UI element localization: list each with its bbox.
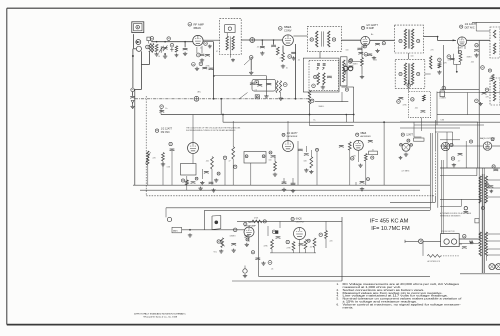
tuning capacitor C2A <box>163 48 168 50</box>
part marker R13 <box>438 58 442 62</box>
part marker <box>371 156 374 159</box>
wire <box>141 63 149 65</box>
resistor R22 <box>310 157 313 168</box>
capacitor C7a <box>205 55 210 57</box>
part marker <box>233 228 237 232</box>
detector tube V4 <box>457 37 466 46</box>
wire <box>258 221 260 276</box>
svg-text:220: 220 <box>330 241 333 243</box>
wire <box>437 92 500 94</box>
wire <box>132 49 134 56</box>
part marker L4 <box>312 84 316 88</box>
antenna coil T1 primary <box>149 43 151 52</box>
wire <box>436 92 438 126</box>
wire <box>201 169 203 179</box>
svg-text:47: 47 <box>229 161 231 163</box>
svg-text:©Howard W. Sams & Co., Inc. 19: ©Howard W. Sams & Co., Inc. 1948 <box>143 315 178 318</box>
wire <box>134 48 137 50</box>
svg-text:10MEG: 10MEG <box>230 236 237 238</box>
ground <box>372 56 376 60</box>
capacitor C27 <box>204 172 209 174</box>
capacitor C35 <box>291 183 296 185</box>
capacitor C31 <box>304 154 309 156</box>
terminal strip TS1 <box>172 227 182 233</box>
capacitor C30 <box>298 149 303 151</box>
wire (T10 tap) <box>487 196 500 198</box>
ground <box>437 70 441 74</box>
capacitor C44 <box>339 146 344 148</box>
part marker <box>492 165 495 168</box>
pilot lamp PL1 <box>489 264 495 270</box>
part marker R2 <box>170 43 174 47</box>
T5 secondary <box>411 29 413 49</box>
T3 core <box>323 31 325 46</box>
wire <box>204 210 206 230</box>
wire <box>309 115 311 126</box>
wire <box>353 115 355 123</box>
resistor R24 <box>252 220 262 223</box>
junction <box>456 71 458 73</box>
wire <box>314 248 316 253</box>
wire <box>440 167 500 169</box>
loopstick L2 box <box>147 37 151 41</box>
volume control R30 <box>221 238 224 248</box>
part marker <box>181 179 184 182</box>
wire <box>220 99 222 115</box>
fuse block <box>475 219 479 223</box>
resistor R19 <box>211 157 214 169</box>
wire <box>477 122 479 168</box>
wire <box>408 53 410 59</box>
wire <box>192 154 194 164</box>
wire <box>224 160 226 186</box>
T2 primary winding <box>226 36 228 50</box>
ground <box>360 75 364 79</box>
wire <box>232 159 234 185</box>
svg-text:CONV: CONV <box>284 28 292 32</box>
wire <box>171 150 173 185</box>
wire <box>203 41 214 43</box>
wire (converter B+) <box>295 44 297 99</box>
ground <box>474 53 478 57</box>
wire <box>270 252 316 254</box>
wire (harness) <box>429 133 431 210</box>
wire <box>422 241 424 256</box>
T6 trimmer <box>417 72 420 75</box>
wire <box>250 59 252 70</box>
part marker <box>348 59 352 63</box>
resistor R6 <box>276 47 279 55</box>
resistor R31 <box>427 255 440 258</box>
part marker C-am <box>349 59 352 62</box>
svg-text:REFERENCE SEGMENTS: REFERENCE SEGMENTS <box>440 216 461 218</box>
part marker <box>251 251 254 254</box>
wire <box>297 141 299 152</box>
ratio det transformer T7 (dashed) <box>490 27 500 58</box>
svg-text:6.: 6. <box>337 303 340 307</box>
wire <box>349 150 351 185</box>
wire <box>355 182 357 185</box>
T8 winding <box>493 81 495 101</box>
wire <box>423 240 441 242</box>
ground <box>219 249 223 253</box>
wire <box>186 176 188 180</box>
ground <box>130 105 134 109</box>
svg-text:47: 47 <box>216 51 218 53</box>
FM tuner enclosure (dashed right) <box>434 150 436 196</box>
wire (RF to converter) <box>241 39 282 41</box>
wire <box>265 76 267 95</box>
AC interlock (dashed) <box>441 255 460 257</box>
wire <box>440 145 483 147</box>
part marker L1 <box>146 45 150 49</box>
wire <box>310 150 312 157</box>
IF transformer T5 (dashed shield) <box>395 25 424 53</box>
wire (T3 to IF amp) <box>341 39 361 41</box>
wire <box>309 104 311 115</box>
wire <box>460 199 462 206</box>
capacitor C7 <box>260 46 265 48</box>
coil L5 <box>430 56 432 69</box>
wire <box>316 152 318 185</box>
wire (IF amp to T5) <box>370 39 395 41</box>
junction <box>156 41 158 43</box>
output tube V8 <box>441 142 449 150</box>
ground <box>200 181 204 185</box>
wire <box>414 124 484 126</box>
part marker <box>367 178 370 181</box>
wire <box>357 150 359 162</box>
FM mixer tube V6 <box>283 141 294 152</box>
border top (decorative frame) <box>7 7 500 9</box>
wire (AVC bus, chain line) <box>135 98 310 100</box>
resistor R12 <box>361 58 364 66</box>
FM coil L6 <box>147 151 149 165</box>
T2 secondary winding <box>232 36 234 50</box>
wire <box>283 178 285 182</box>
wire <box>140 51 142 64</box>
junction <box>189 229 191 231</box>
resistor R8 <box>282 53 285 62</box>
output tube V11 6AQ5 <box>294 228 306 240</box>
wire (AF plate line) <box>237 220 342 222</box>
wire (long vertical, det output) <box>478 40 480 168</box>
wire <box>478 168 480 239</box>
junction <box>346 114 348 116</box>
wire <box>305 249 307 253</box>
wire <box>273 40 275 45</box>
wire <box>353 87 355 115</box>
capacitor C10a <box>250 83 255 85</box>
tie point <box>464 207 467 210</box>
part marker C19 <box>488 69 491 72</box>
RF amp tube V1 6BA6 <box>193 35 203 45</box>
part marker <box>407 139 410 142</box>
wire (detector to ratio det transformer) <box>467 39 490 41</box>
wire <box>214 75 267 77</box>
terminal tick <box>404 240 406 243</box>
FM tuner enclosure (dashed left) <box>145 96 147 196</box>
resistor R15 <box>491 75 494 82</box>
T3 secondary <box>328 31 330 47</box>
part marker C20 <box>160 105 164 109</box>
T2 core <box>229 36 231 49</box>
wire <box>459 238 478 240</box>
svg-text:1/2 12AT7: 1/2 12AT7 <box>287 132 299 135</box>
wire <box>244 266 246 269</box>
wire <box>440 175 477 177</box>
svg-text:6BE6: 6BE6 <box>284 25 292 29</box>
resistor R10 <box>279 81 281 93</box>
wire <box>383 122 385 185</box>
wire <box>299 240 301 253</box>
part marker <box>316 148 319 151</box>
svg-text:1MEG: 1MEG <box>353 64 359 66</box>
wire <box>279 221 281 228</box>
junction <box>309 114 311 116</box>
marker <box>262 155 265 158</box>
svg-text:.05: .05 <box>257 47 259 49</box>
ground <box>399 156 403 159</box>
tie point circle <box>167 217 171 221</box>
ground <box>375 49 379 53</box>
part marker C16 <box>447 55 451 59</box>
part marker <box>286 240 289 243</box>
part marker <box>263 220 266 223</box>
ground <box>260 51 264 55</box>
wire <box>319 51 321 58</box>
svg-text:100: 100 <box>411 56 414 58</box>
part marker R14 <box>458 50 461 53</box>
band switch arm (diagonal) <box>239 93 248 100</box>
T3 core <box>321 31 323 46</box>
part marker C9 <box>288 55 292 59</box>
wire <box>446 132 448 168</box>
resistor R18 <box>162 153 165 161</box>
jack J1 contact circle <box>136 25 140 29</box>
wire <box>442 45 444 90</box>
tube marker V5 <box>155 129 158 132</box>
capacitor C15 <box>367 54 372 56</box>
part marker C6 <box>204 42 208 46</box>
capacitor C29 <box>271 156 276 158</box>
T10 secondary winding <box>485 176 487 203</box>
wire <box>453 54 455 65</box>
junction <box>164 41 166 43</box>
tube marker V2 <box>279 27 283 31</box>
T9 secondary winding <box>485 232 487 256</box>
T4 mounting box (solid) <box>303 58 339 92</box>
wire <box>465 141 467 168</box>
part marker <box>469 140 472 143</box>
svg-text:SHOWN ASSUME A TUNING OF BOTH: SHOWN ASSUME A TUNING OF BOTH FM AND AM … <box>186 129 236 132</box>
capacitor C47 <box>489 186 494 188</box>
capacitor C20 <box>159 111 164 113</box>
wire <box>434 196 436 203</box>
FM oscillator shield box <box>181 164 197 176</box>
part marker C21 <box>407 84 411 88</box>
wire <box>361 66 363 75</box>
resistor R14 <box>459 54 462 62</box>
FM tuner gang box <box>244 152 266 164</box>
svg-text:FM OSC: FM OSC <box>161 132 170 134</box>
capacitor C24 <box>482 93 487 95</box>
wire (detector audio to volume control) <box>182 229 244 231</box>
switch wiper dot <box>215 221 219 225</box>
wire (antenna return) <box>132 57 134 88</box>
capacitor C41 <box>245 236 250 238</box>
svg-text:6AQ5: 6AQ5 <box>296 218 303 221</box>
wire <box>226 33 228 36</box>
ground <box>231 58 235 61</box>
ground <box>175 54 179 57</box>
part marker shell <box>311 99 314 102</box>
part marker C26 <box>169 142 172 145</box>
capacitor C23 <box>399 98 404 100</box>
svg-text:.01: .01 <box>372 150 374 152</box>
svg-text:100: 100 <box>269 160 272 162</box>
part marker <box>269 151 272 154</box>
part marker R10 <box>283 83 287 87</box>
capacitor C14 <box>327 76 332 78</box>
part marker L3 <box>131 88 135 92</box>
ground <box>264 94 268 98</box>
oscillator coil assembly T2 (shield, dashed) <box>220 19 242 55</box>
part marker spkr <box>486 184 489 187</box>
T6 trimmer <box>399 72 402 75</box>
capacitor C5 <box>130 97 135 99</box>
ground <box>452 163 456 167</box>
IF transformer T6 (dashed shield) <box>395 59 425 88</box>
wire <box>420 118 422 131</box>
capacitor C26 <box>170 149 175 151</box>
phono plug P1 <box>136 40 141 45</box>
motor contact B <box>451 239 456 244</box>
wire (harness) <box>437 133 439 208</box>
resistor R26 <box>292 242 295 251</box>
wire <box>440 205 461 207</box>
wire <box>310 125 354 127</box>
part marker <box>382 42 385 45</box>
wire <box>325 221 327 230</box>
coupling capacitor (dark blob) <box>275 230 278 233</box>
wire (long vertical bus left) <box>134 90 136 186</box>
wire <box>211 169 213 185</box>
resistor R16 <box>423 95 426 101</box>
svg-text:.02: .02 <box>298 60 300 62</box>
resistor R20 <box>232 147 235 159</box>
svg-text:ments.: ments. <box>343 306 354 310</box>
part marker <box>450 143 453 146</box>
tube marker V7 <box>401 133 404 136</box>
phono motor switch box <box>441 234 460 247</box>
wire <box>475 22 477 31</box>
wire <box>267 226 269 236</box>
wire (B+ audio feed) <box>205 209 431 211</box>
capacitor C37 <box>458 154 463 156</box>
T1 core <box>150 44 152 53</box>
resistor R25 <box>271 240 274 249</box>
wire <box>341 92 343 102</box>
wire <box>149 53 151 65</box>
part marker C27 <box>217 172 220 175</box>
capacitor C34 <box>282 182 287 184</box>
wire <box>467 93 469 115</box>
ground <box>309 170 313 174</box>
wire (T10 tap) <box>487 187 500 189</box>
T5 trimmer <box>417 39 420 42</box>
wire (FM bus 1) <box>133 184 430 186</box>
capacitor C48 <box>463 212 468 214</box>
wire <box>184 42 186 48</box>
band switch arm (diagonal) <box>244 57 253 65</box>
wire (tube pin) <box>458 45 460 53</box>
electrolytic capacitor C16b <box>348 66 352 70</box>
trimmer capacitor C1 <box>159 46 164 53</box>
ground <box>273 173 277 177</box>
T9 primary winding <box>479 232 481 256</box>
wire <box>408 80 410 91</box>
wire <box>440 89 479 91</box>
ground <box>163 55 167 59</box>
T4 secondary <box>323 73 325 85</box>
svg-text:5.: 5. <box>337 297 340 301</box>
capacitor C17a <box>375 44 380 46</box>
part marker <box>491 138 494 141</box>
capacitor C22 <box>421 111 426 113</box>
wire <box>250 163 252 185</box>
T3 trimmer C11 <box>310 38 313 41</box>
ground <box>232 249 236 253</box>
IF transformer T4 (dashed shield) <box>309 60 339 90</box>
part box marker <box>255 81 258 84</box>
wire <box>414 136 421 138</box>
test point M2 <box>194 96 199 101</box>
resistor R29 <box>325 231 328 239</box>
wire <box>425 73 431 75</box>
T4 top slug symbols <box>317 63 326 70</box>
part marker C25 <box>475 99 479 103</box>
ground <box>261 262 265 266</box>
part marker <box>451 157 454 160</box>
wire <box>476 30 490 32</box>
wire <box>201 46 203 53</box>
part marker <box>246 238 249 241</box>
resistor R2a <box>175 46 177 52</box>
wire <box>456 64 458 71</box>
wire <box>390 201 435 203</box>
wire <box>483 168 485 207</box>
wire <box>353 60 362 62</box>
ground <box>304 168 308 172</box>
FM IF coil L4 <box>308 91 310 104</box>
IF amp tube V3 <box>361 36 370 45</box>
wire (to motor box) <box>440 160 442 234</box>
wire <box>365 161 367 185</box>
wire (tube pin) <box>464 46 466 49</box>
capacitor C40 <box>231 244 236 246</box>
wire <box>160 109 162 115</box>
part marker <box>307 239 310 242</box>
T5 trimmer <box>399 39 402 42</box>
svg-text:1MEG: 1MEG <box>458 48 464 50</box>
part marker C28 <box>234 165 237 168</box>
wire <box>280 93 282 97</box>
capacitor C39 <box>299 244 304 246</box>
wire <box>459 238 479 240</box>
wire <box>297 152 299 186</box>
ground <box>243 274 247 278</box>
